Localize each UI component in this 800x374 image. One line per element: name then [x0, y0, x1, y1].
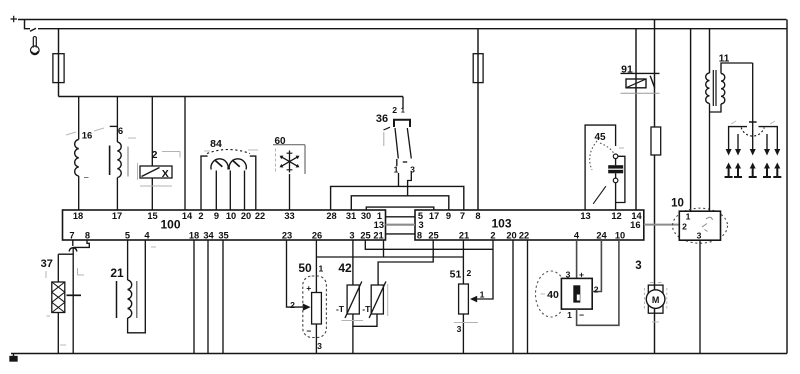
svg-text:31: 31 [346, 211, 356, 221]
distributor [729, 63, 778, 149]
glow element unit 45 [585, 125, 625, 210]
connector bracket inner (pin30 to pin17) [366, 207, 434, 210]
svg-text:-T: -T [362, 304, 371, 314]
wire line15 to pin8 of unit 103 [477, 29, 479, 210]
svg-text:13: 13 [374, 220, 384, 230]
svg-text:22: 22 [519, 231, 529, 241]
svg-text:2: 2 [490, 231, 495, 241]
svg-text:30: 30 [361, 211, 371, 221]
svg-text:50: 50 [298, 261, 312, 275]
supply bus line B+ [18, 19, 787, 21]
svg-text:9: 9 [446, 211, 451, 221]
ballast resistor 37 [46, 254, 73, 353]
blower motor 3 [645, 283, 667, 314]
ignition key symbol [31, 37, 40, 55]
ground symbol [13, 354, 15, 357]
connector bracket outer (pin28 to pin7) [331, 186, 464, 210]
svg-text:13: 13 [580, 211, 590, 221]
interconnect pin13-pin3 [386, 224, 416, 226]
pin 13 / 3 / 16 labels [374, 220, 641, 230]
faint scan artifacts [60, 121, 775, 345]
svg-text:8: 8 [85, 231, 90, 241]
svg-text:2: 2 [290, 300, 295, 310]
svg-text:45: 45 [594, 132, 606, 143]
distributor output arrows [726, 149, 781, 156]
svg-text:X: X [162, 168, 169, 180]
svg-text:2: 2 [392, 105, 397, 115]
control unit 100 box [63, 210, 386, 240]
svg-text:15: 15 [147, 211, 157, 221]
svg-text:1: 1 [401, 106, 405, 115]
svg-text:2: 2 [152, 149, 158, 161]
sensor 50 (potentiometer) [287, 240, 327, 354]
svg-text:33: 33 [284, 211, 294, 221]
svg-text:20: 20 [506, 231, 516, 241]
component reference labels [41, 54, 730, 302]
svg-text:3: 3 [419, 220, 424, 230]
small terminal labels [290, 105, 702, 351]
svg-text:2: 2 [198, 211, 203, 221]
pin8 wire jog joining pin7 line [73, 240, 89, 247]
instrument cluster 84 [201, 150, 256, 211]
relay coil 21 between pins 5 and 4 [117, 240, 146, 333]
wire pin25 of 100 to sensor 51 arrow [365, 240, 493, 249]
wires pin20 pin22 of 103 to ground [513, 240, 528, 354]
svg-text:-T: -T [336, 304, 345, 314]
svg-text:4: 4 [144, 231, 150, 241]
capacitor plate mark [67, 294, 82, 296]
svg-text:1: 1 [480, 290, 485, 300]
svg-text:5: 5 [125, 231, 130, 241]
svg-text:3: 3 [566, 270, 571, 280]
relay 91 [621, 73, 660, 93]
svg-text:2: 2 [594, 285, 599, 295]
svg-text:12: 12 [611, 211, 621, 221]
svg-text:14: 14 [182, 211, 193, 221]
svg-text:9: 9 [214, 211, 219, 221]
fuse F2 [473, 54, 483, 83]
svg-text:35: 35 [218, 231, 228, 241]
connector bracket middle (pin31 to pin9) [351, 196, 449, 210]
svg-text:+: + [579, 269, 584, 279]
svg-text:2: 2 [682, 222, 687, 232]
svg-text:91: 91 [621, 64, 633, 76]
svg-text:25: 25 [428, 231, 438, 241]
svg-text:21: 21 [373, 231, 383, 241]
svg-text:6: 6 [118, 126, 123, 137]
interconnect pin21-pin8 [386, 233, 416, 235]
svg-text:8: 8 [475, 211, 480, 221]
svg-text:26: 26 [312, 231, 322, 241]
svg-text:10: 10 [671, 198, 684, 210]
battery plus terminal [11, 16, 18, 23]
wire pin26 line to sensors rail [316, 256, 463, 258]
svg-text:3: 3 [349, 231, 354, 241]
svg-text:18: 18 [189, 231, 199, 241]
feed rail (third line) [59, 96, 404, 98]
svg-text:16: 16 [630, 220, 640, 230]
svg-text:3: 3 [697, 231, 702, 241]
svg-text:3: 3 [457, 324, 462, 334]
svg-text:51: 51 [450, 269, 462, 281]
svg-text:7: 7 [69, 231, 74, 241]
svg-text:1: 1 [319, 264, 324, 274]
svg-text:20: 20 [241, 211, 251, 221]
svg-text:22: 22 [255, 211, 265, 221]
svg-text:18: 18 [73, 211, 83, 221]
svg-text:24: 24 [596, 231, 607, 241]
switched supply line 15 [38, 28, 787, 30]
svg-text:2: 2 [467, 268, 472, 278]
sensor 51 (resistor) [454, 240, 478, 354]
pin7 wire with loop symbol [72, 240, 74, 246]
svg-text:37: 37 [41, 258, 53, 270]
svg-text:3: 3 [635, 260, 641, 272]
svg-text:17: 17 [429, 211, 439, 221]
svg-text:3: 3 [410, 165, 415, 175]
svg-text:36: 36 [376, 113, 388, 125]
wire jog from B+ to switched line [25, 20, 31, 29]
svg-text:−: − [306, 326, 311, 336]
wire pin16 of 103 to unit 10 pin 2 [644, 224, 680, 226]
right frame vertical wire [786, 20, 788, 354]
shared wire down to ground [72, 247, 74, 353]
ignition coil 11 [706, 63, 753, 211]
spark plugs [725, 163, 782, 179]
ignition unit 10 [673, 208, 728, 353]
svg-text:1: 1 [567, 310, 572, 320]
svg-text:100: 100 [160, 218, 180, 232]
svg-text:10: 10 [226, 211, 236, 221]
svg-text:60: 60 [274, 136, 286, 147]
svg-text:3: 3 [317, 341, 322, 351]
svg-text:8: 8 [417, 231, 422, 241]
solenoid valve 2 [138, 97, 181, 211]
pins 18 34 35 wires to ground [194, 240, 223, 354]
svg-text:21: 21 [110, 266, 124, 280]
svg-text:42: 42 [338, 261, 352, 275]
A/C pressure switch 36 [384, 97, 412, 197]
svg-text:1: 1 [686, 212, 691, 222]
svg-text:103: 103 [491, 217, 511, 231]
blower control unit 40 [536, 240, 619, 325]
wire line15 to ignition coil primary [709, 29, 711, 73]
wire line15 through relay coil to pin14 of 103 [635, 29, 637, 210]
wire from line 15 to feed rail [58, 29, 60, 97]
control unit 103 box [415, 210, 644, 240]
wire line15 to unit 10 pin 1 [690, 29, 692, 212]
unit labels 100 103 10 3 [160, 198, 683, 305]
svg-text:10: 10 [615, 231, 625, 241]
interconnect pin1-pin5 [386, 216, 416, 218]
svg-text:25: 25 [360, 231, 370, 241]
coolant temp sensors 42 [342, 240, 434, 354]
wire pin21 of 100 down to rail [383, 240, 385, 257]
svg-text:23: 23 [282, 231, 292, 241]
fuse F1 [53, 54, 64, 83]
svg-text:11: 11 [719, 54, 730, 65]
ignition switch contact in line 15 [30, 28, 36, 31]
svg-text:40: 40 [547, 289, 559, 301]
svg-text:28: 28 [326, 211, 336, 221]
glow plug / coil 16 [75, 97, 89, 211]
svg-text:−: − [579, 310, 584, 320]
ground bus [11, 353, 787, 355]
svg-text:1: 1 [394, 165, 399, 175]
pin numbers unit 100 top row [69, 211, 642, 241]
A/C switch 60 with snowflake [273, 145, 305, 210]
ignition coil 6 [110, 97, 128, 211]
svg-text:16: 16 [82, 131, 93, 142]
svg-text:M: M [652, 295, 660, 305]
svg-text:4: 4 [574, 231, 580, 241]
PLACEHOLDER-BOTTOM2 [585, 63, 781, 211]
svg-text:84: 84 [210, 138, 222, 150]
svg-text:17: 17 [112, 211, 122, 221]
svg-text:+: + [306, 283, 311, 293]
wire feed rail to pin 14 of unit 100 [184, 97, 186, 211]
svg-text:7: 7 [460, 211, 465, 221]
fuse F3 [651, 127, 661, 155]
svg-text:34: 34 [203, 231, 214, 241]
svg-text:21: 21 [459, 231, 469, 241]
wire B+ to relay contact, fuse, motor 3 and ground [654, 20, 656, 354]
